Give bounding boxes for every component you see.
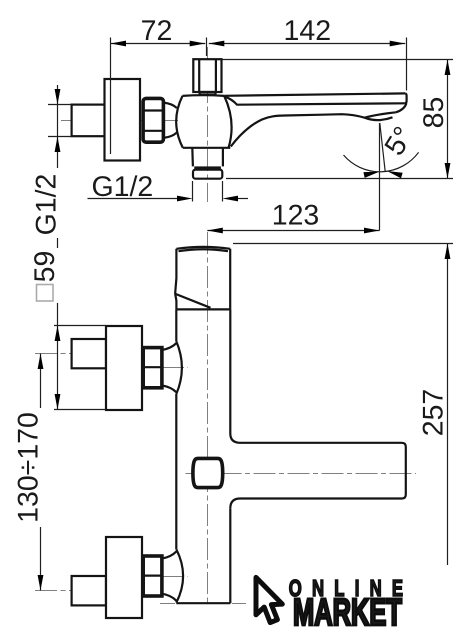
svg-text:257: 257 bbox=[418, 389, 450, 437]
svg-text:142: 142 bbox=[284, 15, 332, 47]
svg-text:59: 59 bbox=[29, 251, 61, 283]
svg-text:MARKET: MARKET bbox=[293, 592, 402, 634]
svg-text:5°: 5° bbox=[379, 121, 421, 161]
svg-text:G1/2: G1/2 bbox=[92, 171, 154, 203]
svg-text:85: 85 bbox=[418, 97, 450, 129]
svg-text:G1/2: G1/2 bbox=[31, 174, 63, 236]
svg-text:123: 123 bbox=[272, 200, 320, 232]
svg-text:130÷170: 130÷170 bbox=[13, 412, 45, 523]
svg-text:72: 72 bbox=[141, 15, 173, 47]
